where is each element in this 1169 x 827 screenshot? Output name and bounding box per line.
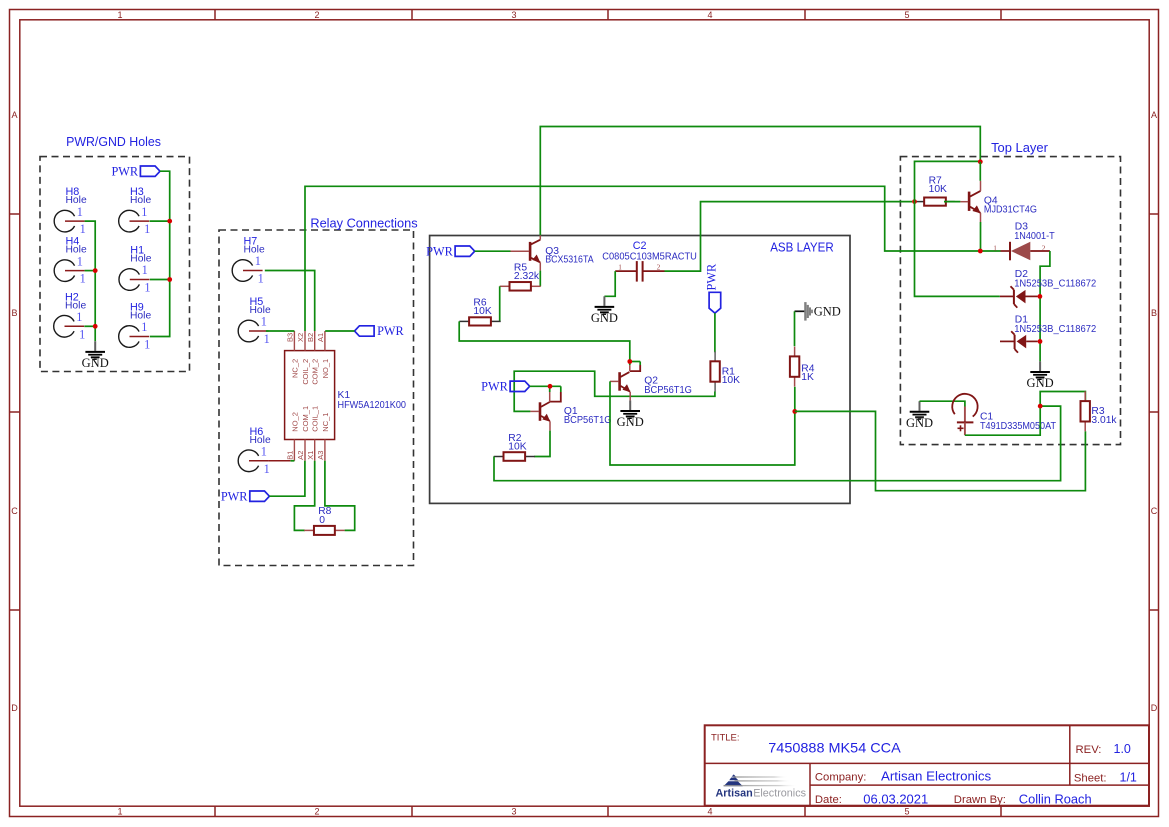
section title Relay Connections [310,216,418,231]
net flag PWR (Q1) [481,379,530,393]
wire PWR to Q1 collector [530,385,561,387]
net flag PWR (relay right) [355,324,405,338]
hole H6 lead extension [269,460,291,462]
svg-text:1: 1 [80,222,86,236]
svg-text:GND: GND [1027,376,1054,390]
wire C2 pin1 to GND [604,271,615,296]
svg-text:10K: 10K [473,306,491,317]
svg-text:B: B [1151,308,1157,318]
svg-text:C0805C103M5RACTU: C0805C103M5RACTU [602,251,697,262]
svg-text:PWR: PWR [221,489,248,503]
svg-text:Drawn By:: Drawn By: [954,794,1006,806]
junction [93,268,98,273]
svg-text:1: 1 [258,272,264,286]
svg-text:2: 2 [1042,243,1046,252]
svg-text:Sheet:: Sheet: [1074,772,1107,784]
svg-text:COM_2: COM_2 [311,359,320,385]
svg-text:B1: B1 [286,451,295,460]
wire R6 to Q2 collector [459,321,630,361]
label Q1 [564,406,612,426]
wire GND to R4 [794,311,796,346]
svg-text:MJD31CT4G: MJD31CT4G [984,205,1037,216]
svg-text:NC_1: NC_1 [321,413,330,432]
wire H6 to B1 [291,460,295,462]
relay K1 pin names [290,359,330,432]
svg-text:3.01k: 3.01k [1091,415,1117,426]
wire D3 to D2 D1 GND [1040,251,1050,361]
wire Q4 emitter down [980,222,982,251]
svg-text:3: 3 [511,806,516,816]
svg-text:1: 1 [77,205,83,219]
wire GND to C1 [920,401,965,406]
svg-text:1N5253B_C118672: 1N5253B_C118672 [1014,324,1096,335]
wire PWR to H9 [150,171,170,336]
svg-text:1: 1 [255,254,261,268]
svg-text:GND: GND [906,416,933,430]
svg-text:HFW5A1201K00: HFW5A1201K00 [338,400,407,411]
wire H1 stub [150,279,170,281]
svg-text:A2: A2 [296,451,305,460]
svg-text:COM_1: COM_1 [301,406,310,432]
label Q4 [984,196,1037,216]
resistor R6 [459,317,500,325]
hole H1 [119,245,152,295]
label D1 [1014,315,1096,335]
junction [167,219,172,224]
svg-text:1: 1 [117,10,122,20]
svg-text:PWR: PWR [377,324,404,338]
wire R7 junction to D2 [915,202,1000,297]
wire R5 to R6 [499,286,501,321]
hole H5 [238,296,271,346]
resistor R5 [500,282,541,291]
label D3 [1014,222,1055,242]
wire R7 junction loop to Q4 collector [915,161,981,201]
svg-text:Electronics: Electronics [753,788,806,800]
resistor R3 [1081,391,1090,431]
ground GND (C1) [906,401,933,430]
svg-text:4: 4 [707,806,712,816]
label R2 [508,433,526,453]
net flag PWR (vertical) [705,263,721,313]
transistor Q1 BCP56T1G [530,386,560,430]
hole H3 [119,186,152,236]
date field [815,793,928,807]
diode D3 1N4001-T [993,242,1050,260]
svg-text:3: 3 [511,10,516,20]
resistor R8 [304,526,345,535]
ground GND (holes) [82,341,109,370]
svg-text:BCX5316TA: BCX5316TA [545,255,594,266]
wire PWR to R1 [714,313,716,352]
label C1 [980,412,1057,432]
svg-text:4: 4 [707,10,712,20]
svg-text:NO_2: NO_2 [290,412,299,432]
svg-text:1: 1 [261,445,267,459]
svg-text:2: 2 [657,263,661,272]
label R6 [473,297,491,317]
section box ASB LAYER [430,236,850,504]
svg-text:C2: C2 [633,240,647,252]
wire PWR to A2 [269,461,305,496]
svg-text:1K: 1K [801,372,814,383]
svg-text:PWR: PWR [111,164,138,178]
svg-text:5: 5 [904,10,909,20]
capacitor C2 C0805C103M5RACTU [615,261,664,282]
svg-text:1: 1 [141,320,147,334]
resistor R4 [790,347,799,387]
svg-text:X1: X1 [306,451,315,460]
capacitor C1 T491D335M050AT [952,394,977,435]
resistor R2 [494,452,535,461]
wire Q4 collector stub [979,162,981,181]
hole H9 [119,302,152,352]
wire H3 stub [150,220,170,222]
label C2 [602,240,697,262]
wire H7 to B2 [265,271,315,332]
ground GND (D1) [1027,361,1054,390]
svg-text:C: C [1151,506,1158,516]
svg-text:1: 1 [618,263,622,272]
svg-text:ASB LAYER: ASB LAYER [770,240,834,255]
section box PWR/GND Holes [40,157,190,372]
label D2 [1014,269,1096,289]
hole H7 [232,236,265,286]
svg-text:10K: 10K [508,442,526,453]
label R5 [514,262,540,282]
svg-text:1: 1 [264,462,270,476]
wire R7 to Q4 base [944,201,960,203]
wire A3 to R8 [325,461,355,531]
transistor Q4 MJD31CT4G [960,181,980,222]
label R4 [801,363,814,383]
svg-text:1: 1 [80,272,86,286]
svg-text:REV:: REV: [1076,744,1102,756]
diode D1 1N5253B_C118672 (zener) [1000,331,1038,353]
svg-text:B: B [11,308,17,318]
ground GND (C2) [591,296,618,325]
svg-text:PWR: PWR [426,244,453,258]
wire PWR to Q3 base [475,250,511,252]
diode D2 1N5253B_C118672 (zener) [1000,286,1038,308]
wire X2 to Top Layer [305,186,1001,331]
section box Relay Connections [219,230,414,566]
wire H4 stub [85,270,96,272]
svg-text:PWR/GND Holes: PWR/GND Holes [66,134,161,149]
company logo [716,774,807,799]
svg-text:A: A [11,110,17,120]
section title ASB LAYER [770,240,834,255]
svg-text:1.0: 1.0 [1114,742,1131,756]
svg-text:06.03.2021: 06.03.2021 [863,793,928,807]
hole H8 [54,186,87,236]
wire Q2 base to R4 [610,381,795,465]
junction (Q2 collector) [627,359,632,364]
svg-text:C: C [11,506,18,516]
svg-text:GND: GND [82,356,109,370]
wire H2 stub [84,325,95,327]
transistor Q2 BCP56T1G [610,362,640,401]
svg-text:0: 0 [319,515,325,526]
svg-text:1: 1 [76,310,82,324]
resistor R7 [915,198,955,206]
label R1 [722,367,740,387]
transistor Q3 BCX5316TA [511,235,541,270]
svg-text:D: D [11,703,18,713]
svg-text:A: A [1151,110,1157,120]
wire C2 pin2 to R7 junction [665,202,913,272]
svg-text:2: 2 [314,806,319,816]
svg-text:Date:: Date: [815,794,842,806]
svg-text:1: 1 [79,327,85,341]
svg-text:1N5253B_C118672: 1N5253B_C118672 [1014,278,1096,289]
label Q3 [545,246,594,265]
resistor R1 [710,352,719,392]
svg-text:Relay Connections: Relay Connections [310,216,418,231]
svg-text:GND: GND [617,415,644,429]
svg-text:T491D335M050AT: T491D335M050AT [980,421,1057,432]
svg-text:7450888 MK54 CCA: 7450888 MK54 CCA [768,739,901,755]
svg-text:1: 1 [141,205,147,219]
svg-text:COIL_2: COIL_2 [301,359,310,385]
svg-text:A1: A1 [316,333,325,342]
svg-text:1: 1 [77,254,83,268]
svg-text:Artisan Electronics: Artisan Electronics [881,770,991,784]
svg-text:Company:: Company: [815,772,867,784]
svg-text:1: 1 [144,222,150,236]
svg-text:B3: B3 [286,333,295,342]
svg-text:2: 2 [314,10,319,20]
svg-text:B2: B2 [306,333,315,342]
wire R2 to Top Layer junction [494,406,1061,481]
title block frame [705,725,1149,805]
junction (R4 bottom) [792,409,797,414]
title text [711,732,901,755]
svg-text:BCP56T1G: BCP56T1G [564,415,612,426]
label Q2 [644,375,692,396]
section title PWR/GND Holes [66,134,161,149]
junction (D1 anode) [1038,339,1043,344]
wire X1 to R8 [294,461,314,531]
ground GND (sideways, R4) [795,302,841,321]
relay K1 pin numbers [286,333,326,460]
svg-text:GND: GND [591,311,618,325]
svg-text:Collin Roach: Collin Roach [1019,793,1092,807]
wire Q1 emitter to R2 [534,431,550,457]
wire Q3 emitter to R5 [539,271,541,287]
junction [93,324,98,329]
svg-text:2.32k: 2.32k [514,271,540,282]
wire R4 bottom to junction [794,387,796,412]
junction (Q4 emitter / D3) [978,249,983,254]
svg-text:X2: X2 [296,333,305,342]
net flag PWR (relay bottom) [221,489,270,503]
svg-text:1: 1 [264,332,270,346]
svg-text:GND: GND [814,305,841,319]
label R8 [318,506,331,526]
wire Q3 collector to Q4 collector [540,127,980,236]
svg-text:1: 1 [261,315,267,329]
company field [815,770,991,784]
svg-text:COIL_1: COIL_1 [311,406,320,432]
net flag PWR (holes) [111,164,160,178]
svg-text:1N4001-T: 1N4001-T [1014,231,1055,242]
svg-text:A3: A3 [316,451,325,460]
junction (C1/R3/GND) [1038,404,1043,409]
junction (R7 left) [912,199,917,204]
svg-text:5: 5 [904,806,909,816]
svg-text:Artisan: Artisan [716,788,753,800]
wire A1 to PWR [325,330,354,332]
rev field [1076,742,1131,756]
svg-text:1: 1 [993,243,997,252]
hole H2 [54,291,87,341]
wire R1 to Q1 base [514,371,715,411]
wire H5 to B3 [266,330,295,332]
svg-text:D: D [1151,703,1158,713]
svg-text:10K: 10K [929,184,947,195]
svg-text:1/1: 1/1 [1120,771,1137,785]
svg-text:1: 1 [142,263,148,277]
wire R4 to R3 [795,411,1086,490]
junction (Q4 collector) [978,159,983,164]
svg-text:1: 1 [144,281,150,295]
hole H4 [54,236,87,286]
wire C1 to GND junction to R3 [965,392,1086,436]
svg-text:1: 1 [144,338,150,352]
svg-text:Top Layer: Top Layer [991,140,1048,155]
svg-text:BCP56T1G: BCP56T1G [644,385,692,396]
label R3 [1091,406,1117,426]
wire H8 to GND [85,221,96,341]
drawn-by field [954,793,1092,807]
junction (D2 anode) [1038,294,1043,299]
label K1 [338,390,407,411]
section box Top Layer [900,157,1120,445]
hole H6 [238,426,271,476]
junction (Q1 collector) [548,384,553,389]
svg-text:PWR: PWR [481,379,508,393]
svg-text:1: 1 [117,806,122,816]
svg-text:NO_1: NO_1 [321,359,330,379]
svg-text:NC_2: NC_2 [290,359,299,378]
net flag PWR (ASB left) [426,244,475,258]
svg-text:TITLE:: TITLE: [711,732,740,743]
svg-text:10K: 10K [722,375,740,386]
label R7 [929,175,947,195]
relay K1 HFW5A1201K00 body [285,331,335,461]
section title Top Layer [991,140,1048,155]
svg-text:PWR: PWR [705,263,719,290]
ground GND (Q2) [617,400,644,429]
sheet field [1074,771,1137,785]
junction [167,277,172,282]
